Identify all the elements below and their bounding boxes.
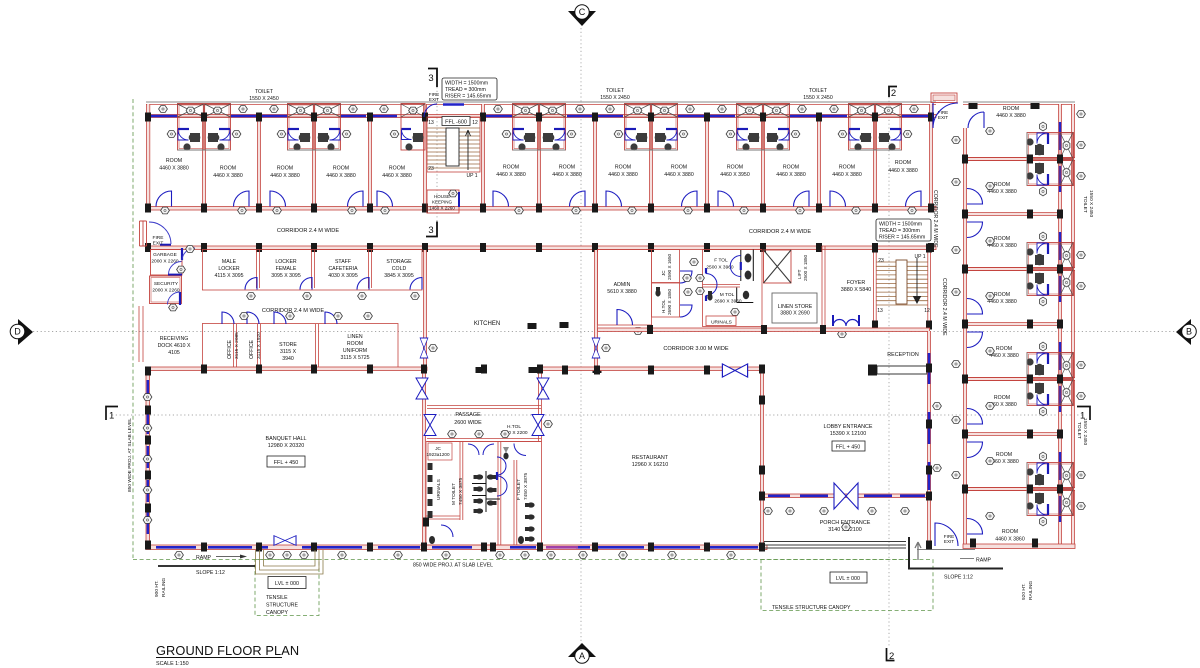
svg-text:TREAD = 300mm: TREAD = 300mm (879, 228, 920, 234)
svg-text:LINEN: LINEN (347, 334, 363, 340)
svg-text:4460 X 3950: 4460 X 3950 (720, 172, 750, 178)
svg-text:UNIFORM: UNIFORM (343, 348, 367, 354)
kitchen doors (420, 338, 610, 358)
svg-text:23: 23 (428, 166, 434, 172)
svg-text:URINALS: URINALS (436, 479, 442, 500)
section line 2 (888, 97, 890, 648)
room doors on corridor wall (156, 191, 921, 207)
wing room doors on west wall (967, 112, 984, 534)
svg-text:2: 2 (891, 88, 896, 99)
svg-text:F TOL: F TOL (714, 258, 728, 264)
svg-text:SLOPE 1:12: SLOPE 1:12 (196, 570, 225, 576)
svg-text:3: 3 (428, 225, 433, 236)
passage butterfly doors (416, 378, 549, 436)
svg-text:UP 1: UP 1 (914, 254, 925, 260)
svg-text:RESTAURANT: RESTAURANT (632, 455, 669, 461)
grid axis dotted line D-B (33, 331, 1176, 333)
section marker 3 top (428, 69, 437, 88)
svg-text:7450 X 3875: 7450 X 3875 (523, 472, 529, 500)
svg-text:CORRIDOR 2.4 M WIDE: CORRIDOR 2.4 M WIDE (749, 229, 811, 235)
svg-text:EXIT: EXIT (429, 97, 439, 102)
svg-text:LVL ± 000: LVL ± 000 (275, 581, 299, 587)
svg-text:KITCHEN: KITCHEN (474, 321, 500, 327)
toilet pair rooms8-9 (614, 104, 688, 151)
svg-text:FFL + 450: FFL + 450 (274, 460, 299, 466)
banquet right wall (423, 371, 425, 545)
svg-text:RAILING: RAILING (1028, 581, 1034, 600)
grid marker C (568, 5, 596, 26)
svg-text:4115 X 3095: 4115 X 3095 (214, 273, 243, 279)
svg-text:900 HT.: 900 HT. (154, 580, 160, 597)
svg-text:4460 X 3880: 4460 X 3880 (496, 172, 526, 178)
svg-text:4460 X 3880: 4460 X 3880 (326, 173, 356, 179)
svg-text:15390 X 12100: 15390 X 12100 (830, 431, 867, 437)
reception desk (868, 352, 927, 376)
svg-text:LIFT: LIFT (797, 269, 802, 279)
grid axis dotted line C-A (580, 28, 582, 646)
svg-text:4460 X 3880: 4460 X 3880 (159, 166, 189, 172)
svg-text:12: 12 (924, 308, 930, 314)
svg-text:1923a1200: 1923a1200 (427, 452, 450, 457)
fire exit top right (931, 93, 958, 128)
svg-text:FOYER: FOYER (847, 280, 866, 286)
svg-text:M TOILET: M TOILET (451, 483, 457, 505)
kitchen east wall (595, 250, 597, 371)
svg-text:ROOM: ROOM (503, 165, 519, 171)
locker labels (214, 259, 413, 279)
tensile canopy label left (266, 595, 299, 616)
wing room labels (987, 106, 1026, 543)
canopy edge lines left (256, 550, 324, 574)
hexagon markers on corridor wall (161, 207, 917, 214)
svg-text:4460 X 3880: 4460 X 3880 (270, 173, 300, 179)
svg-text:3115 X 5725: 3115 X 5725 (340, 355, 369, 361)
svg-text:4030 X 3095: 4030 X 3095 (328, 273, 358, 279)
svg-text:12: 12 (472, 120, 478, 126)
svg-text:ROOM: ROOM (996, 346, 1012, 352)
porch ramp edge lines (764, 542, 906, 549)
restaurant top wall (541, 367, 763, 371)
svg-text:ROOM: ROOM (347, 341, 363, 347)
svg-text:2500 X 1850: 2500 X 1850 (803, 254, 808, 281)
toilet pair rooms10-11 (726, 104, 800, 151)
svg-text:ROOM: ROOM (783, 165, 799, 171)
svg-text:ROOM: ROOM (727, 165, 743, 171)
svg-text:KEEPING: KEEPING (432, 200, 453, 205)
housekeeping room (427, 190, 459, 213)
svg-text:STAFF: STAFF (335, 259, 351, 265)
svg-text:LOCKER: LOCKER (275, 259, 297, 265)
restaurant label (632, 455, 669, 468)
svg-text:ROOM: ROOM (1002, 529, 1018, 535)
svg-text:OFFICE: OFFICE (249, 339, 255, 359)
svg-text:CORRIDOR 2.4 M WIDE: CORRIDOR 2.4 M WIDE (941, 278, 947, 336)
foyer south double door (833, 315, 859, 337)
svg-text:CAFETERIA: CAFETERIA (328, 266, 358, 272)
wing top outer wall (963, 102, 1075, 105)
svg-text:TOILET: TOILET (255, 89, 274, 95)
svg-text:4105: 4105 (168, 350, 180, 356)
svg-text:TENSILE: TENSILE (266, 595, 288, 601)
svg-text:EXIT: EXIT (944, 539, 954, 544)
svg-text:1550 X 2450: 1550 X 2450 (600, 95, 630, 101)
svg-text:7450 X 3875: 7450 X 3875 (458, 477, 464, 505)
svg-text:LOBBY ENTRANCE: LOBBY ENTRANCE (823, 424, 872, 430)
grid marker D (10, 319, 33, 345)
svg-text:SECURITY: SECURITY (154, 281, 179, 287)
wall south of admin/toilets (corridor 3.0 north wall) (598, 328, 930, 332)
toilet pair rooms1-2 (167, 104, 241, 151)
svg-text:4460 X 3880: 4460 X 3880 (382, 173, 412, 179)
grid marker B (1176, 319, 1196, 345)
green dashed site boundary bottom (133, 559, 908, 561)
office labels rotated (227, 332, 370, 362)
fire exit left (140, 221, 172, 247)
svg-text:ROOM: ROOM (220, 166, 236, 172)
security room (150, 276, 182, 311)
title (156, 643, 299, 667)
svg-text:12980 X 20320: 12980 X 20320 (268, 443, 305, 449)
svg-text:ROOM: ROOM (615, 165, 631, 171)
M TOL room (706, 268, 749, 315)
svg-text:TENSILE STRUCTURE CANOPY: TENSILE STRUCTURE CANOPY (772, 605, 851, 611)
svg-text:BANQUET HALL: BANQUET HALL (266, 436, 307, 442)
svg-text:4460 X 3880: 4460 X 3880 (552, 172, 582, 178)
banquet left windows (147, 380, 149, 534)
toilet single room5 (390, 104, 425, 151)
svg-text:4460 X 3880: 4460 X 3880 (987, 189, 1017, 195)
svg-text:RISER = 145.65mm: RISER = 145.65mm (879, 235, 925, 241)
svg-text:4460 X 3880: 4460 X 3880 (989, 353, 1019, 359)
svg-text:H.TOL: H.TOL (507, 424, 521, 430)
linen store (772, 293, 817, 323)
svg-text:WIDTH = 1500mm: WIDTH = 1500mm (879, 222, 922, 228)
bottom wall windows (156, 546, 758, 549)
foyer west wall (822, 246, 825, 327)
top outer wall (146, 102, 936, 105)
lobby east wall (928, 331, 930, 545)
svg-text:ADMIN: ADMIN (614, 282, 631, 288)
railing label left (154, 578, 167, 597)
wing partition walls (967, 158, 1075, 491)
lobby labels (823, 424, 872, 451)
grid marker A (568, 643, 596, 663)
svg-text:1550 X 2450: 1550 X 2450 (1088, 190, 1094, 218)
locker room doors (245, 278, 422, 290)
section marker 2 bottom (887, 648, 895, 662)
svg-text:JC: JC (661, 270, 666, 276)
svg-text:ROOM: ROOM (333, 166, 349, 172)
svg-text:RISER = 145.65mm: RISER = 145.65mm (445, 94, 491, 100)
stair1 FFL -600 box (442, 117, 470, 126)
svg-text:FEMALE: FEMALE (276, 266, 297, 272)
svg-text:ROOM: ROOM (839, 165, 855, 171)
svg-text:1550 X 2450: 1550 X 2450 (1082, 418, 1088, 446)
svg-text:TOILET: TOILET (809, 88, 828, 94)
bottom toilets block (423, 431, 542, 552)
toilet pair rooms6-7 (502, 104, 576, 151)
kitchen west wall (424, 250, 426, 368)
building bottom wall (146, 545, 767, 550)
wing east wall (1059, 104, 1075, 548)
JC room middle (652, 250, 692, 284)
foyer label (841, 280, 872, 293)
svg-text:4460 X 3880: 4460 X 3880 (888, 168, 918, 174)
svg-text:UP 1: UP 1 (466, 173, 477, 179)
svg-text:ROOM: ROOM (1003, 106, 1019, 112)
section marker 1 right (1077, 407, 1090, 422)
svg-text:CORRIDOR 3.00 M WIDE: CORRIDOR 3.00 M WIDE (663, 346, 729, 352)
wing interior hexagons (986, 128, 995, 520)
svg-text:D: D (14, 327, 21, 337)
section marker 2 top (889, 87, 897, 100)
svg-text:GROUND FLOOR PLAN: GROUND FLOOR PLAN (156, 643, 299, 658)
svg-text:3880 X 5840: 3880 X 5840 (841, 287, 872, 293)
svg-text:LOCKER: LOCKER (218, 266, 240, 272)
section marker 3 mid-left (426, 222, 437, 237)
svg-text:ROOM: ROOM (994, 182, 1010, 188)
wing toilet rotated labels (1076, 190, 1094, 446)
green dashed site boundary left (132, 99, 134, 558)
stair1 center landing strip (446, 128, 459, 166)
svg-text:3: 3 (428, 73, 433, 84)
lobby east windows (928, 353, 931, 490)
svg-text:A: A (579, 651, 585, 661)
svg-text:ROOM: ROOM (895, 160, 911, 166)
svg-text:4460 X 3880: 4460 X 3880 (832, 172, 862, 178)
toilet pair rooms3-4 (277, 104, 351, 151)
svg-text:STORAGE: STORAGE (386, 259, 412, 265)
svg-text:LVL ± 000: LVL ± 000 (836, 576, 860, 582)
svg-text:850 WIDE PROJ. AT SLAB LEVEL: 850 WIDE PROJ. AT SLAB LEVEL (413, 563, 493, 569)
hexagon markers on top wall (159, 106, 919, 113)
lobby door west (722, 364, 747, 377)
svg-text:ROOM: ROOM (166, 158, 182, 164)
svg-text:13: 13 (428, 120, 434, 126)
locker rooms block walls (202, 250, 422, 291)
svg-text:COLD: COLD (392, 266, 407, 272)
svg-text:ROOM: ROOM (277, 166, 293, 172)
banquet top wall (146, 367, 427, 371)
toilet labels above plan (249, 88, 833, 102)
svg-text:1550 X 2450: 1550 X 2450 (249, 96, 279, 102)
svg-text:4460 X 3880: 4460 X 3880 (776, 172, 806, 178)
porch wall (764, 494, 928, 498)
svg-text:2500 X 3960: 2500 X 3960 (706, 265, 734, 271)
LVL box right (830, 572, 867, 583)
svg-text:4460 X 3880: 4460 X 3880 (608, 172, 638, 178)
kitchen interior columns (476, 322, 602, 373)
svg-text:JC: JC (435, 446, 441, 451)
svg-text:RECEIVING: RECEIVING (160, 336, 189, 342)
svg-text:B: B (1186, 327, 1192, 337)
wing west wall (964, 128, 966, 544)
stair1 width/tread/riser note box (442, 78, 497, 100)
room partition walls top band (148, 104, 931, 207)
corridor labels top (277, 228, 811, 235)
columns on top band walls (145, 113, 934, 253)
stair1 up arrow (466, 130, 471, 170)
green dashed canopy box right (761, 560, 933, 611)
svg-text:CORRIDOR 2.4 M WIDE: CORRIDOR 2.4 M WIDE (277, 228, 339, 234)
svg-text:12960 X 16210: 12960 X 16210 (632, 462, 669, 468)
svg-text:4460 X 3880: 4460 X 3880 (996, 113, 1026, 119)
svg-text:STRUCTURE: STRUCTURE (266, 603, 299, 609)
passage walls (427, 371, 542, 442)
svg-text:1: 1 (109, 411, 114, 422)
ramp left (158, 555, 255, 577)
svg-text:FIRE: FIRE (153, 235, 164, 241)
banquet bottom double door (274, 536, 296, 546)
svg-text:CORRIDOR 2.4 M WIDE: CORRIDOR 2.4 M WIDE (262, 308, 324, 314)
svg-text:3880 X 2690: 3880 X 2690 (780, 311, 810, 317)
lobby west wall (761, 371, 763, 545)
svg-text:5610 X 3880: 5610 X 3880 (607, 289, 637, 295)
svg-text:RAILING: RAILING (161, 578, 167, 597)
svg-text:TREAD = 300mm: TREAD = 300mm (445, 87, 486, 93)
svg-text:23: 23 (878, 258, 884, 264)
wing columns (962, 103, 1063, 548)
window sill wall top band (146, 115, 936, 118)
stair 2 (872, 244, 932, 330)
receiving dock label (158, 336, 191, 356)
porch labels (820, 520, 871, 533)
svg-text:CORRIDOR 2.4 M WIDE: CORRIDOR 2.4 M WIDE (932, 190, 938, 248)
hexagons below bottom wall (175, 421, 736, 559)
fire exit top (stair1) (424, 92, 464, 117)
section marker 1 left (106, 407, 118, 422)
svg-text:3115 X 1920: 3115 X 1920 (256, 332, 262, 359)
svg-text:4460 X 3880: 4460 X 3880 (213, 173, 243, 179)
railing label right (1021, 581, 1034, 600)
toilet pair rooms12-13 (838, 104, 912, 151)
svg-text:RAMP: RAMP (976, 558, 992, 564)
svg-text:TOILET: TOILET (1082, 196, 1088, 213)
svg-text:920 HT.: 920 HT. (1021, 583, 1027, 600)
svg-text:3095 X 3095: 3095 X 3095 (271, 273, 301, 279)
svg-text:WIDTH = 1500mm: WIDTH = 1500mm (445, 81, 488, 87)
svg-text:3115 X: 3115 X (280, 349, 297, 355)
svg-text:GARBAGE: GARBAGE (153, 252, 177, 258)
svg-text:4460 X 3880: 4460 X 3880 (664, 172, 694, 178)
svg-text:HOUSE: HOUSE (434, 194, 450, 199)
svg-text:13: 13 (877, 308, 883, 314)
svg-text:URINALS: URINALS (711, 320, 732, 326)
svg-text:H.TOL: H.TOL (661, 299, 666, 313)
wing toilet blocks (1026, 122, 1073, 526)
svg-text:EXIT: EXIT (153, 241, 164, 247)
svg-text:ROOM: ROOM (994, 395, 1010, 401)
section line 1 (112, 414, 1084, 416)
blue window strips top band (151, 115, 928, 118)
svg-text:OFFICE: OFFICE (227, 339, 233, 359)
garbage room (151, 246, 196, 275)
green dashed canopy box left (255, 560, 319, 616)
banquet left wall (146, 367, 150, 545)
corridor-side wall of top rooms (146, 207, 936, 211)
svg-text:F TOILET: F TOILET (516, 479, 522, 500)
office doors top (222, 312, 337, 324)
svg-text:2690 X 3960: 2690 X 3960 (714, 299, 742, 305)
svg-text:MALE: MALE (222, 259, 237, 265)
svg-text:FFL + 450: FFL + 450 (836, 445, 861, 451)
svg-text:2: 2 (889, 651, 894, 662)
svg-text:ROOM: ROOM (996, 452, 1012, 458)
room labels top band (159, 158, 918, 179)
svg-text:RAMP: RAMP (196, 555, 212, 561)
svg-text:2690 X 1850: 2690 X 1850 (667, 288, 672, 315)
admin room (598, 250, 652, 335)
LVL box left (268, 577, 306, 589)
svg-text:4460 X 3860: 4460 X 3860 (995, 537, 1025, 543)
office hexagons (240, 313, 373, 320)
F TOL room (690, 250, 762, 327)
svg-text:4460 X 3880: 4460 X 3880 (987, 299, 1017, 305)
svg-text:ROOM: ROOM (559, 165, 575, 171)
stair2 width/tread/riser note box (876, 219, 931, 241)
banquet labels (266, 436, 307, 467)
svg-text:3845 X 3095: 3845 X 3095 (384, 273, 414, 279)
svg-text:DOCK 4610 X: DOCK 4610 X (158, 343, 191, 349)
porch hexagons (764, 508, 910, 531)
stair1 outline (427, 117, 480, 172)
receiving dock west wall (139, 306, 143, 362)
svg-text:FFL -600: FFL -600 (445, 120, 467, 126)
wing east hexagons (1077, 111, 1086, 510)
wing bottom wall (963, 544, 1075, 549)
svg-text:SCALE 1:150: SCALE 1:150 (156, 661, 189, 667)
columns bottom band (145, 364, 932, 552)
svg-text:TOILET: TOILET (1076, 422, 1082, 439)
svg-text:STORE: STORE (279, 342, 297, 348)
office/store/linen block walls (202, 324, 398, 369)
svg-text:ROOM: ROOM (994, 292, 1010, 298)
H.TOL room middle (652, 283, 693, 317)
svg-text:ROOM: ROOM (389, 166, 405, 172)
svg-text:3940: 3940 (282, 356, 294, 362)
wing west hexagons (933, 137, 961, 479)
ramp right (909, 537, 1003, 581)
locker hexagons (247, 293, 420, 300)
svg-text:3115 X 2085: 3115 X 2085 (234, 332, 240, 359)
svg-text:1550 X 2450: 1550 X 2450 (803, 95, 833, 101)
svg-text:M TOL: M TOL (720, 292, 735, 298)
section line 3 (436, 87, 438, 222)
svg-text:2600 WIDE: 2600 WIDE (454, 420, 482, 426)
urinals room (706, 316, 736, 326)
svg-text:TOILET: TOILET (606, 88, 625, 94)
svg-text:ROOM: ROOM (671, 165, 687, 171)
svg-text:ROOM: ROOM (994, 236, 1010, 242)
svg-text:2590 X 1650: 2590 X 1650 (667, 253, 672, 280)
svg-text:RECEPTION: RECEPTION (887, 352, 919, 358)
svg-text:LINEN STORE: LINEN STORE (778, 304, 813, 310)
porch double door (834, 483, 858, 509)
passage labels (454, 412, 528, 436)
svg-text:C: C (579, 7, 586, 17)
svg-text:850 WIDE PROJ. AT SLAB LEVEL: 850 WIDE PROJ. AT SLAB LEVEL (127, 418, 133, 492)
stair1 treads (427, 128, 480, 168)
svg-text:EXIT: EXIT (938, 115, 948, 120)
fire exit bottom right (935, 523, 958, 546)
lift shaft (764, 250, 809, 283)
corridor south wall (middle band north wall) (146, 246, 936, 250)
svg-text:SLOPE 1:12: SLOPE 1:12 (944, 575, 973, 581)
svg-text:PASSAGE: PASSAGE (455, 412, 481, 418)
svg-text:CANOPY: CANOPY (266, 610, 288, 616)
svg-text:1460 X 2260: 1460 X 2260 (429, 206, 455, 211)
